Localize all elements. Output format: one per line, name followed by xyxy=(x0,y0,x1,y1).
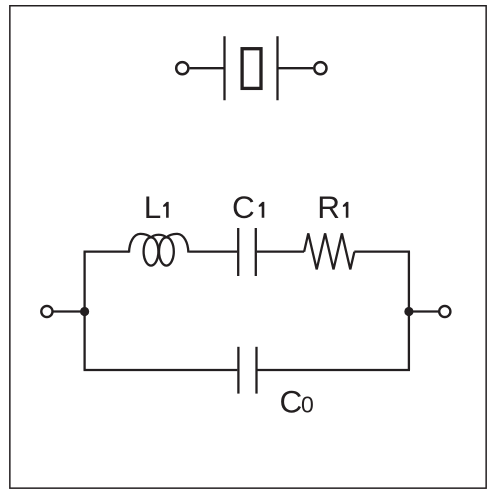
svg-text:C: C xyxy=(280,383,303,419)
svg-text:C: C xyxy=(232,189,255,225)
svg-text:R: R xyxy=(317,189,340,225)
svg-text:L: L xyxy=(144,189,162,225)
svg-text:0: 0 xyxy=(301,391,314,417)
